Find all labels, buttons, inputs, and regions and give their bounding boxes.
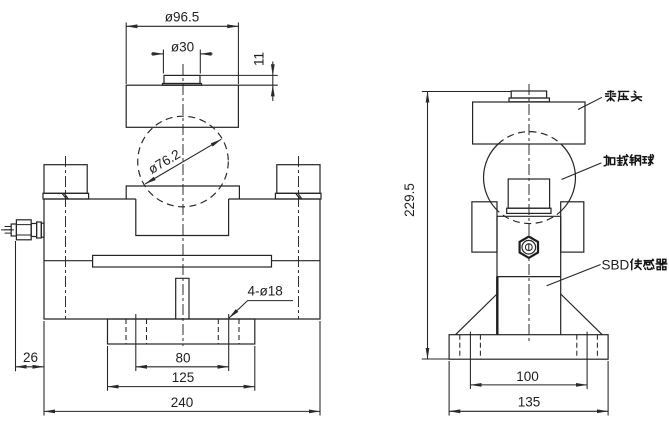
column section line: [497, 276, 561, 278]
center slot: [176, 278, 189, 319]
top cap flange band left view: [163, 84, 202, 86]
right corner block: [277, 165, 320, 194]
hex nut: [520, 237, 538, 258]
svg-text:11: 11: [252, 52, 267, 66]
label jiazaigangqiu leader: [562, 163, 602, 180]
right view boss band: [507, 208, 551, 213]
dim 80 line: [136, 366, 229, 368]
base hole hidden lines right: [577, 335, 598, 360]
cable hatch: [5, 227, 12, 234]
cable gland thread section: [37, 222, 42, 238]
dim o76.2 arrow line: [145, 139, 221, 184]
body outline left view: [44, 199, 320, 319]
dim 135 line: [449, 410, 608, 412]
label jiazaigangqiu glyphs: [604, 155, 653, 166]
dim o96.5 line: [126, 25, 238, 27]
svg-text:SBD: SBD: [602, 258, 630, 273]
dim 125 line: [108, 386, 255, 388]
connector centerline: [1, 229, 14, 231]
left block washer: [43, 193, 89, 199]
top cap (o30 boss) left view: [164, 75, 200, 83]
right view cap: [511, 91, 546, 98]
hex nut facet lines: [16, 225, 31, 235]
nut screw detail: [525, 244, 532, 251]
right block washer: [275, 193, 321, 199]
left view left bolt centerline: [65, 156, 67, 319]
dim 229.5 line: [427, 92, 429, 360]
cable gland neck: [31, 224, 36, 237]
right view pressure head plate: [473, 102, 585, 144]
right hole center line: [228, 314, 230, 371]
base hole center lines: [470, 332, 587, 389]
nameplate section line: [44, 260, 320, 262]
svg-text:240: 240: [171, 395, 194, 410]
dim 229.5 extension lines: [422, 92, 511, 360]
right washer tick: [296, 194, 302, 199]
base plate left view: [108, 319, 255, 344]
left washer tick: [62, 194, 68, 199]
svg-text:100: 100: [516, 369, 539, 384]
right view right shoulder: [561, 202, 584, 252]
left hole hidden lines: [126, 319, 147, 344]
svg-text:4-ø18: 4-ø18: [248, 284, 283, 299]
label chengyatou leader: [578, 97, 602, 109]
right view boss: [508, 179, 549, 208]
dim 4-o18 leader: [229, 301, 293, 319]
dim o30 extension lines: [163, 50, 200, 74]
dim 11 extension lines: [200, 75, 278, 85]
dim 26 line: [16, 366, 44, 368]
left corner block: [44, 165, 87, 194]
right hole hidden lines: [218, 319, 239, 344]
dim 26 extension line: [15, 241, 17, 371]
right view centerline: [528, 84, 530, 344]
right skirt diagonal: [561, 294, 603, 335]
right view loading ball hidden dashed arcs: [497, 132, 562, 224]
body top surface left: [44, 198, 136, 200]
thick cup edge: [496, 277, 498, 335]
right view cap band: [509, 98, 549, 102]
right view loading ball solid side arcs: [484, 144, 576, 210]
right view left shoulder: [472, 202, 497, 252]
svg-text:26: 26: [23, 350, 38, 365]
pressure head plate left view: [126, 85, 238, 127]
left view right bolt centerline: [298, 156, 300, 319]
cable gland hex nut: [16, 220, 31, 240]
label chengyatou glyphs: [606, 91, 642, 101]
body top surface right: [229, 198, 320, 200]
right view base plate: [449, 335, 608, 360]
svg-text:80: 80: [175, 350, 190, 365]
dim 11 arrows: [272, 62, 274, 76]
loading ball dashed circle left view: [138, 116, 229, 207]
nut inner circle: [522, 240, 536, 254]
notch under pedestal: [136, 199, 229, 236]
dim o96.5 extension lines: [126, 23, 238, 85]
dim 125 extension lines: [108, 346, 255, 391]
svg-text:229.5: 229.5: [402, 183, 417, 217]
svg-text:135: 135: [518, 395, 541, 410]
cable stub: [11, 224, 16, 236]
svg-text:125: 125: [172, 370, 195, 385]
label SBD sensor glyphs: [631, 259, 667, 270]
nameplate strip: [93, 255, 272, 267]
left view main centerline: [182, 64, 184, 346]
left hole center line: [135, 314, 137, 371]
dim o30 arrow tails: [151, 53, 163, 55]
pedestal top left view: [126, 186, 239, 199]
dim 240 extension lines: [44, 321, 320, 416]
right view column: [497, 216, 561, 334]
label SBD sensor leader: [547, 265, 601, 286]
svg-text:ø96.5: ø96.5: [165, 10, 200, 25]
left skirt diagonal: [456, 294, 498, 335]
cable gland washer: [41, 223, 44, 237]
dim 240 line: [44, 410, 320, 412]
base hole hidden lines left: [460, 335, 481, 360]
dim 100 line: [470, 384, 587, 386]
svg-text:ø30: ø30: [171, 40, 194, 55]
dim 135 extension lines: [449, 361, 608, 416]
